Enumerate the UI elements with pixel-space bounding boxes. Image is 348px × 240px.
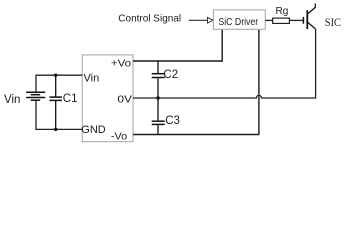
svg-text:C2: C2 [163, 69, 178, 81]
svg-text:GND: GND [81, 124, 106, 136]
svg-text:Vin: Vin [84, 72, 100, 84]
wire driver to Rg [265, 19, 272, 21]
wire control arrow line [189, 19, 208, 21]
svg-text:SiC Driver: SiC Driver [218, 16, 258, 28]
svg-text:-Vo: -Vo [111, 130, 127, 142]
svg-text:Control Signal: Control Signal [118, 12, 181, 24]
arrowhead [208, 18, 214, 24]
battery V1 [26, 92, 45, 100]
wire top-left rail [36, 75, 82, 92]
wire -Vo rail [133, 30, 259, 135]
wire Rg to gate [289, 19, 303, 21]
resistor Rg [273, 18, 290, 23]
svg-text:Vin: Vin [4, 94, 20, 106]
svg-text:C3: C3 [165, 115, 180, 127]
converter box U1 [82, 55, 133, 142]
wire +Vo rail [133, 30, 222, 61]
driver box SiC Driver [213, 10, 265, 29]
junction top C1 [54, 74, 57, 77]
wire battery bottom [36, 100, 82, 129]
svg-text:Rg: Rg [276, 6, 289, 17]
svg-text:0V: 0V [117, 94, 132, 106]
svg-text:+Vo: +Vo [111, 58, 131, 70]
wire 0V rail with hop [133, 29, 316, 98]
junction C2 C3 0V [156, 96, 159, 99]
capacitor C3 [152, 98, 165, 135]
capacitor C1 [49, 75, 62, 129]
junction bottom C1 [54, 128, 57, 131]
svg-text:C1: C1 [63, 93, 78, 105]
svg-text:SIC: SIC [325, 15, 341, 29]
capacitor C2 [152, 61, 165, 98]
transistor Q1 SiC IGBT [303, 4, 315, 30]
